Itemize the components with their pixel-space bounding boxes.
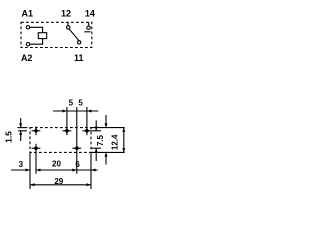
svg-text:A1: A1: [22, 9, 34, 19]
pin 14 lead: [88, 22, 90, 26]
contact 12 circle: [67, 26, 70, 29]
pin A2 crosshair: [32, 144, 41, 153]
arrowhead 29 right: [87, 183, 92, 186]
dim line 29: [30, 184, 91, 186]
contact 14 circle: [87, 26, 90, 29]
dim 12.4 lower arrow: [105, 152, 107, 164]
pin 12 lead: [67, 22, 69, 25]
svg-text:7.5: 7.5: [96, 134, 105, 146]
pin 14 crosshair: [83, 128, 92, 133]
extension line box left bottom: [29, 153, 31, 189]
pin 11 crosshair: [72, 146, 81, 151]
extension line box right bottom: [90, 153, 92, 189]
svg-text:A2: A2: [21, 53, 33, 63]
svg-text:12: 12: [61, 9, 71, 19]
extension line pin row top right: [92, 130, 102, 132]
armature wire 11-12: [69, 29, 79, 41]
dim 7.5 lower arrow: [95, 148, 97, 161]
svg-text:20: 20: [52, 159, 61, 168]
extension line col 12: [66, 107, 68, 135]
arrowhead 29 left: [30, 183, 35, 186]
arrowhead at box right: [91, 169, 96, 172]
dim 3 leader line: [11, 169, 30, 171]
extension line col A1 bottom: [35, 153, 37, 174]
svg-text:1.5: 1.5: [3, 131, 13, 143]
dim 7.5 upper arrow: [95, 120, 97, 131]
footprint outline dashed box: [30, 128, 91, 153]
dimension line 5,5: [53, 110, 98, 112]
contact 14 bar: [84, 31, 90, 33]
dim 12.4 inner double arrow: [123, 128, 125, 153]
dim line 20 and 6: [36, 169, 98, 171]
svg-text:29: 29: [54, 177, 63, 186]
relay K1 schematic dashed outline: [21, 22, 92, 47]
arrowhead at col A1: [36, 169, 41, 172]
pin 12 crosshair: [63, 128, 72, 133]
arrowhead left of 5,5: [62, 110, 67, 113]
coil terminal A2 circle: [26, 43, 29, 46]
svg-text:5: 5: [78, 98, 83, 107]
extension line pin row bottom right: [92, 147, 102, 149]
extension line box top right: [92, 127, 125, 129]
extension line col 14: [86, 107, 88, 135]
wire A1 to coil: [30, 27, 43, 32]
extension line col 11: [76, 107, 78, 174]
pin A1 crosshair: [32, 126, 41, 135]
dim 1.5 upper arrow: [20, 118, 22, 128]
svg-text:5: 5: [69, 98, 74, 107]
svg-text:14: 14: [85, 9, 95, 19]
svg-text:3: 3: [19, 160, 24, 169]
dim 1.5 top tick: [18, 127, 28, 129]
svg-text:11: 11: [74, 53, 84, 63]
svg-text:12.4: 12.4: [111, 134, 120, 150]
extension line box bottom right: [92, 151, 125, 153]
arrowhead at col 11: [72, 169, 77, 172]
pivot node 11 circle: [77, 41, 80, 44]
arrowhead right of 5,5: [87, 110, 92, 113]
dim 1.5 lower arrow: [20, 131, 22, 141]
dim 1.5 bottom tick: [18, 130, 27, 132]
dim 12.4 upper arrow: [105, 115, 107, 128]
coil K1 rectangle: [38, 33, 46, 39]
coil terminal A1 circle: [26, 26, 29, 29]
svg-text:6: 6: [75, 160, 80, 169]
wire coil to A2: [30, 39, 43, 45]
